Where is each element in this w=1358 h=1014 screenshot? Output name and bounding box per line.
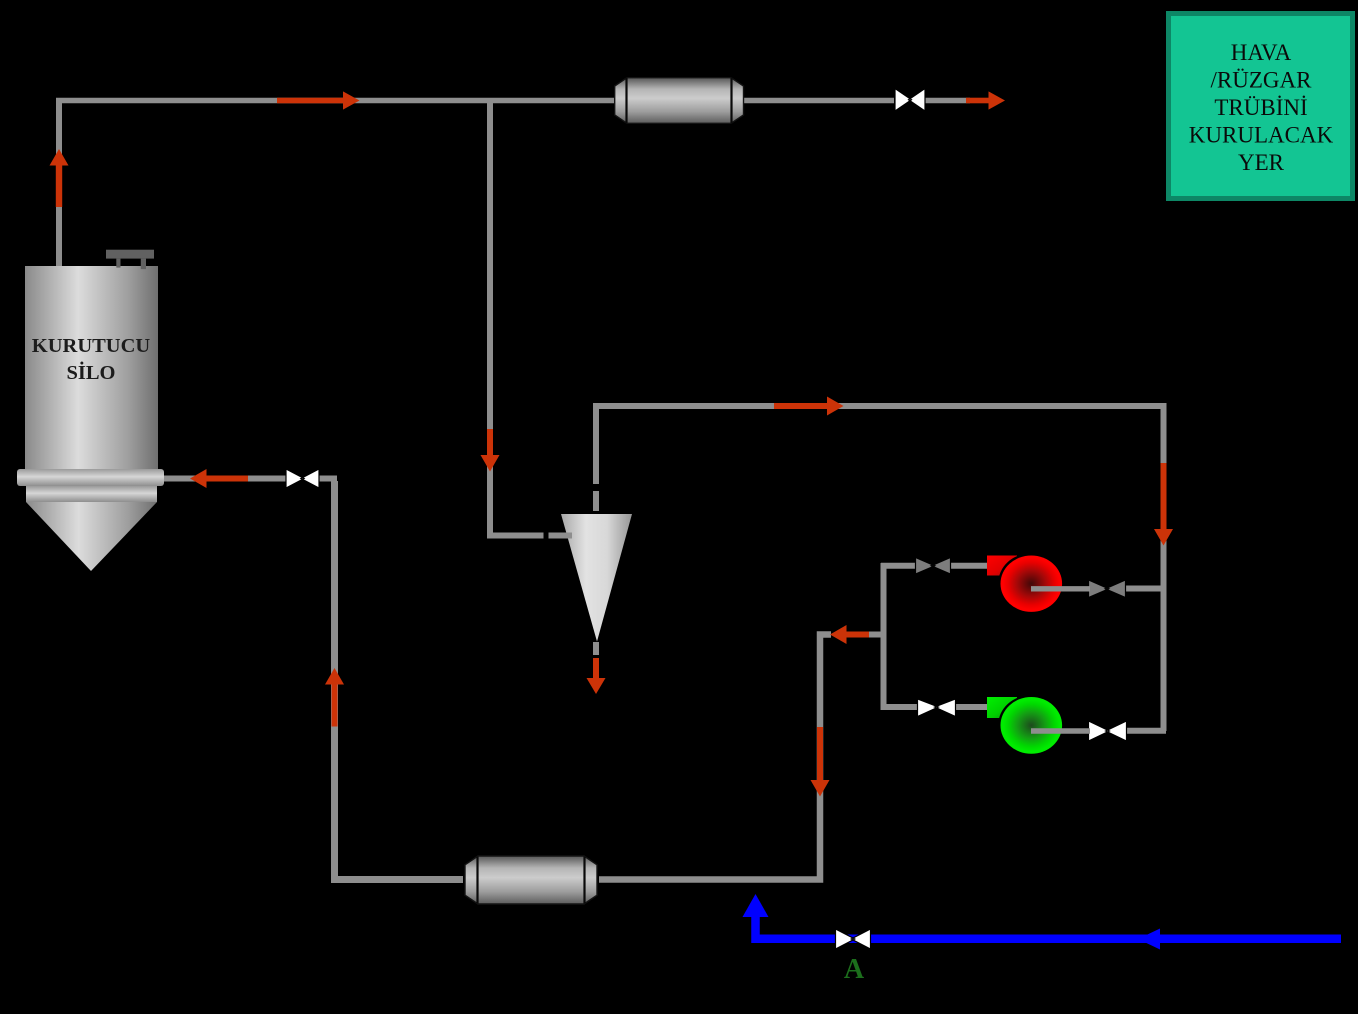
arrow: down below cyclone apex — [587, 658, 606, 694]
silo KURUTUCU SILO body — [25, 266, 158, 471]
wire: top header from vessel to valve V1 — [742, 98, 894, 104]
valve V5 (gray, pump P1 discharge) — [1089, 580, 1126, 598]
wire: dashed stub above cyclone — [593, 491, 599, 511]
vessel T1 (top horizontal capsule) — [615, 78, 744, 124]
arrow: right on cyclone overhead line — [774, 397, 844, 416]
arrow: up at silo riser — [50, 149, 69, 207]
wire: valve V7 to right header bottom corner — [1125, 728, 1166, 734]
wire: lower branch left segment to valve V6 — [881, 704, 919, 710]
pump P2 (green) casing — [998, 695, 1062, 754]
wire: pump P1 discharge to valve V5 — [1031, 586, 1090, 591]
valve V4 (gray, pump P1 suction) — [916, 558, 951, 575]
blue arrow: up into bottom header — [743, 894, 769, 917]
pump P1 (red) inlet tab — [987, 556, 1017, 576]
valve V2 (white, silo outlet) — [286, 469, 319, 488]
arrow: right on top header — [277, 91, 360, 109]
arrow: down on corner leg x=820 — [811, 727, 830, 797]
svg-text:YER: YER — [1238, 150, 1285, 175]
silo vent fitting — [106, 250, 154, 259]
blue feed line — [756, 915, 1342, 939]
wire: valve V2 to left riser corner — [318, 476, 337, 482]
pump P2 (green) inlet tab — [987, 697, 1017, 718]
blue arrow: left on feed line — [1138, 929, 1160, 950]
arrow: right after valve V1 — [966, 91, 1005, 109]
silo cone bottom — [26, 502, 157, 571]
arrow: left into suction header tee — [830, 625, 869, 644]
wire: cyclone overhead outlet riser — [596, 406, 1164, 731]
wire: suction header tee to left corner — [869, 632, 886, 638]
svg-text:A: A — [844, 954, 865, 985]
svg-text:/RÜZGAR: /RÜZGAR — [1211, 68, 1313, 93]
wire: dashed stub into cyclone inlet — [549, 533, 573, 539]
svg-text:KURULACAK: KURULACAK — [1189, 123, 1334, 148]
wire: silo top riser and top header to vessel — [56, 98, 62, 268]
pump P1 (red) casing — [998, 554, 1062, 613]
cyclone separator — [561, 514, 632, 642]
wire: valve V5 to right header — [1124, 586, 1166, 592]
wire: upper branch valve V4 to pump P1 inlet — [949, 563, 990, 569]
wire: lower branch valve V6 to pump P2 inlet — [954, 704, 990, 710]
svg-text:SİLO: SİLO — [67, 360, 116, 384]
svg-text:HAVA: HAVA — [1231, 40, 1292, 65]
arrow: down on right header — [1154, 463, 1173, 546]
HAVA wind turbine site box — [1169, 14, 1353, 199]
arrow: down on cyclone drop leg — [481, 429, 500, 472]
wire: silo outlet to valve V2 — [164, 476, 287, 482]
valve A (white, blue feed line) — [836, 929, 871, 949]
valve V1 (white, top header) — [895, 89, 925, 112]
wire: drop leg from top header to cyclone inlet — [490, 101, 544, 536]
svg-text:TRÜBİNİ: TRÜBİNİ — [1214, 95, 1307, 120]
wire: dashed stub below cyclone apex — [593, 642, 599, 655]
valve V7 (white, pump P2 discharge) — [1089, 721, 1127, 741]
silo lower flange — [26, 486, 157, 502]
wire: corner down-leg to bottom header — [599, 635, 831, 880]
wire: pump P2 discharge to valve V7 — [1031, 728, 1090, 733]
wire: pump suction header (left) — [881, 563, 887, 710]
valve V6 (white, pump P2 suction) — [918, 699, 956, 717]
svg-text:KURUTUCU: KURUTUCU — [32, 335, 151, 357]
silo upper flange — [17, 469, 164, 486]
vessel T2 (bottom horizontal capsule) — [465, 856, 597, 904]
arrow: left at silo outlet — [190, 469, 248, 488]
wire: bottom header left of vessel to left riser — [335, 481, 464, 880]
arrow: up on left riser — [325, 668, 344, 727]
wire: upper branch left segment to valve V4 — [881, 563, 917, 569]
wire: top header after valve V1 — [923, 98, 970, 104]
